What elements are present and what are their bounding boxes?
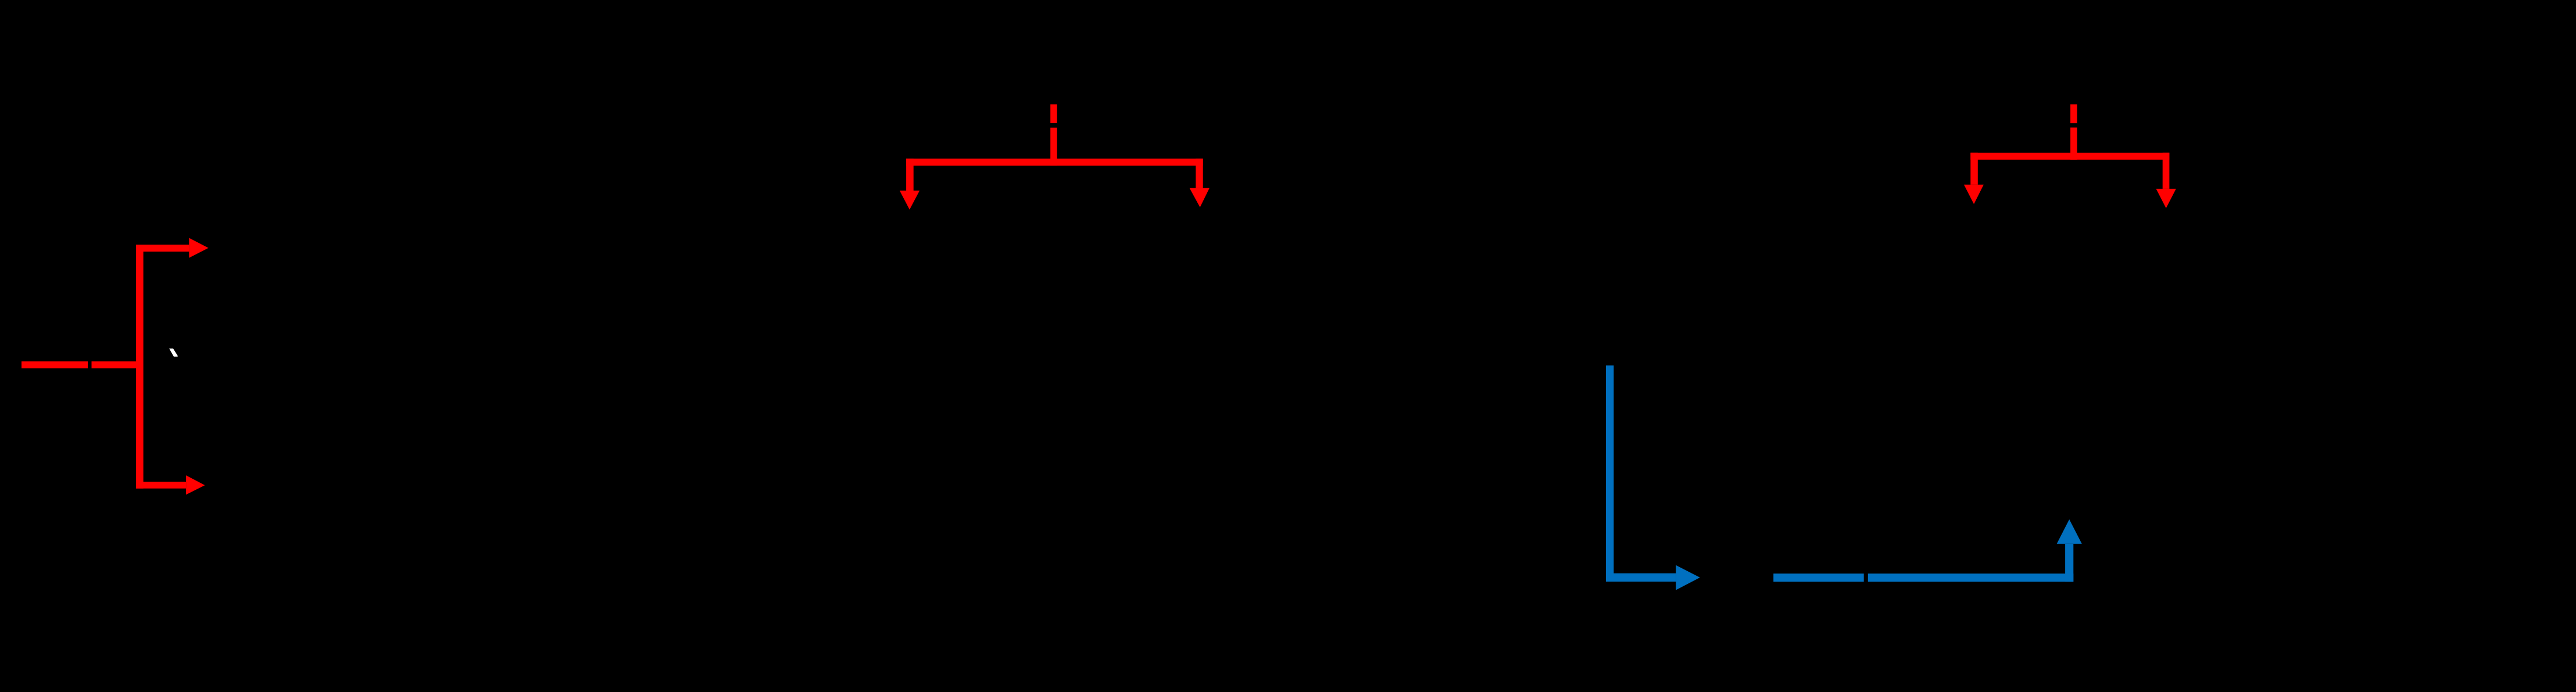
arrowhead: bottom right-pointing (186, 475, 205, 494)
wire: horizontal dash segment 2 (1868, 573, 2074, 582)
wire: stem top dash (1050, 105, 1057, 123)
wire: right drop shaft (2163, 153, 2170, 189)
wire: horizontal bar (1970, 153, 2169, 160)
wire: left horizontal dash segment 1 (22, 361, 88, 368)
arrowhead: left down-pointing (1964, 185, 1984, 204)
wire: vertical segment (1606, 365, 1613, 582)
wire: horizontal dash segment 1 (1773, 573, 1864, 582)
wire: stem top dash (2070, 105, 2077, 124)
middle red branch (stem + bar + two down arrows) (900, 105, 1210, 210)
wire: vertical segment (2065, 544, 2073, 582)
arrowhead: left down-pointing (900, 191, 920, 210)
arrowhead: top right-pointing (189, 238, 208, 258)
wire: bottom arm shaft (136, 482, 186, 489)
right red branch (stem + bar + two down arrows) (1964, 105, 2176, 209)
arrowhead: right-pointing (1676, 565, 1700, 590)
white slash mark (169, 349, 178, 357)
arrowhead: right down-pointing (1190, 188, 1210, 207)
wire: stem lower segment (2070, 128, 2077, 160)
wire: horizontal bar (906, 159, 1203, 166)
blue elbow arrow (down then right) (1606, 365, 1700, 590)
blue line with up arrow (right then up) (1773, 519, 2082, 582)
wire: vertical trunk (136, 245, 144, 489)
wire: left drop shaft (906, 159, 914, 191)
wire: right drop shaft (1196, 159, 1203, 188)
arrowhead: up-pointing (2057, 519, 2082, 544)
wire: top arm shaft (136, 245, 189, 252)
wire: stem lower segment (1050, 128, 1057, 166)
left red branching arrow (input line + two right-pointing arrows) (22, 238, 209, 495)
wire: left drop shaft (1970, 153, 1978, 185)
arrowhead: right down-pointing (2156, 189, 2176, 208)
wire: horizontal segment (1606, 573, 1676, 582)
wire: left horizontal dash segment 2 (92, 361, 144, 368)
